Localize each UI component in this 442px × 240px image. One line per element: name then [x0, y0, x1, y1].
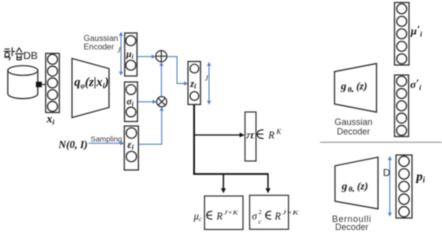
svg-text:π: π	[246, 129, 255, 141]
sigma_c box	[250, 195, 289, 229]
encoder trapezoid q_phi(z|x_i)	[72, 58, 109, 117]
svg-text:R: R	[267, 131, 274, 142]
gaussian decoder trapezoid g_theta_r(z)	[335, 64, 377, 113]
svg-text:2: 2	[258, 209, 261, 216]
blue wire mu to oplus	[137, 55, 155, 59]
trunk wire from z_i down	[193, 105, 195, 175]
element-of symbol	[257, 130, 263, 139]
database cylinder	[8, 66, 38, 99]
svg-text:g: g	[340, 81, 347, 93]
op-amp adder oplus	[156, 51, 167, 62]
svg-text:K: K	[275, 128, 281, 136]
vector mu_i	[125, 33, 137, 76]
svg-text:Decoder: Decoder	[335, 222, 368, 232]
arrow trunk to pi box	[194, 133, 245, 138]
vector z_i	[188, 62, 201, 105]
vector epsilon_i	[124, 126, 138, 170]
J arrow right of z_i	[207, 62, 211, 105]
svg-text:Decoder: Decoder	[337, 126, 370, 136]
wire drop to mu_c box	[221, 174, 226, 193]
vector sigma_i	[125, 82, 138, 122]
blue wire sigma to otimes	[138, 100, 156, 104]
blue wire oplus to z_i	[167, 57, 188, 86]
blue arrow N to epsilon	[89, 141, 125, 145]
bernoulli decoder trapezoid g_theta_b(z)	[335, 157, 378, 209]
svg-text:θ: θ	[348, 85, 352, 94]
vector p_i	[396, 155, 412, 218]
vector x_i	[46, 53, 60, 112]
svg-text:D: D	[383, 168, 390, 179]
vector sigma'_i	[395, 75, 409, 137]
svg-text:R: R	[216, 212, 223, 223]
svg-text:g: g	[341, 180, 348, 192]
blue wire otimes to oplus	[159, 62, 163, 97]
multiplier otimes	[157, 97, 167, 107]
mu_c box	[205, 196, 244, 230]
divider line	[320, 141, 442, 143]
svg-text:c: c	[258, 218, 261, 225]
vector mu'_i	[395, 3, 410, 66]
svg-text:DB: DB	[23, 50, 38, 62]
svg-text:(z): (z)	[356, 82, 367, 93]
D arrow	[388, 156, 392, 217]
svg-text:θ: θ	[349, 185, 353, 194]
wire drop to sigma_c box	[266, 173, 271, 193]
pi box	[245, 112, 256, 161]
svg-text:Sampling: Sampling	[91, 134, 123, 143]
svg-text:R: R	[274, 212, 281, 223]
학습DB label	[4, 48, 23, 60]
wire DB to x_i	[42, 83, 46, 85]
svg-text:(z): (z)	[357, 181, 368, 192]
svg-text:J×K: J×K	[224, 210, 239, 217]
blue wire epsilon to otimes	[139, 107, 164, 145]
branch wire horizontal	[193, 173, 268, 175]
svg-text:J×K: J×K	[282, 210, 299, 217]
svg-text:Encoder: Encoder	[84, 43, 115, 52]
svg-text:N(0, I): N(0, I)	[58, 140, 88, 151]
connector square	[36, 82, 42, 88]
J arrow left of mu_i	[119, 32, 123, 76]
